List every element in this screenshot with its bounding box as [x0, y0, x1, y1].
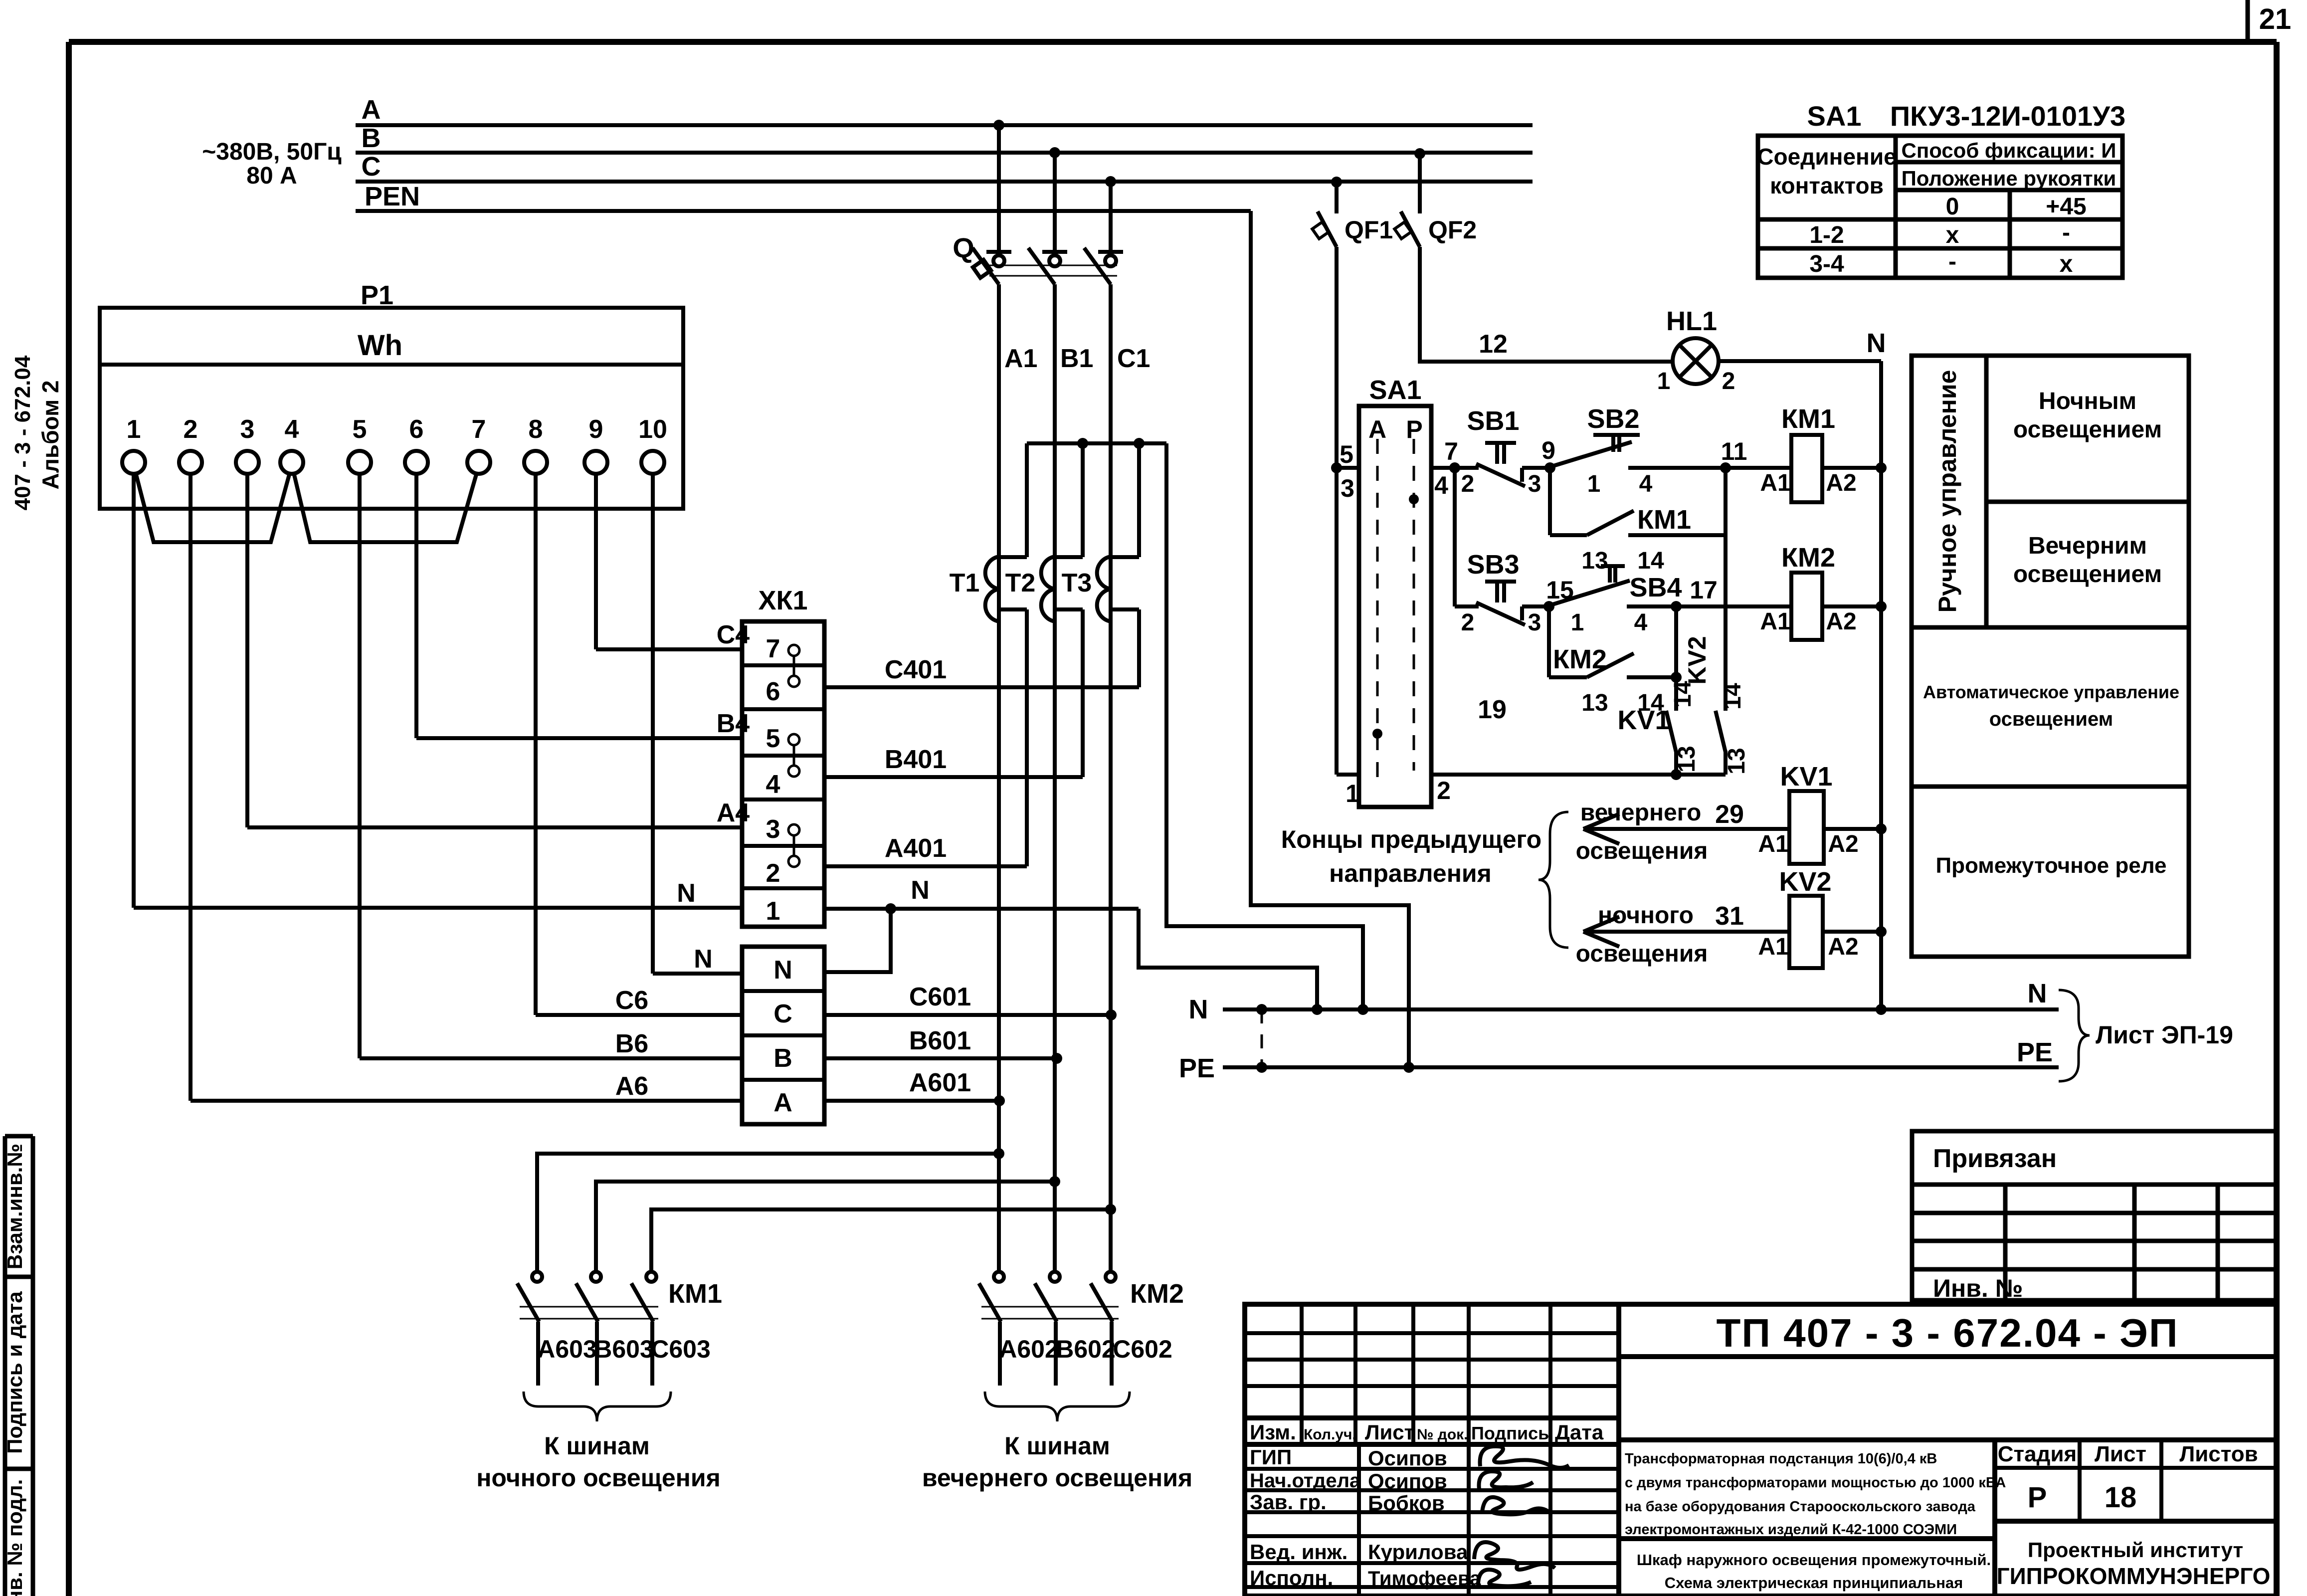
- svg-text:N: N: [1867, 328, 1886, 358]
- svg-text:вечернего: вечернего: [1580, 799, 1702, 826]
- svg-text:Соединение: Соединение: [1757, 144, 1896, 170]
- svg-text:N: N: [2028, 979, 2047, 1008]
- svg-text:A: A: [1368, 415, 1386, 443]
- svg-text:C401: C401: [885, 655, 947, 684]
- svg-text:B603: B603: [594, 1335, 654, 1363]
- svg-text:5: 5: [1340, 440, 1353, 468]
- svg-text:T1: T1: [950, 569, 980, 598]
- svg-text:8: 8: [529, 415, 543, 444]
- svg-text:Подпись и дата: Подпись и дата: [3, 1291, 26, 1454]
- svg-text:N: N: [773, 956, 792, 985]
- svg-text:SB4: SB4: [1629, 573, 1682, 602]
- svg-text:4: 4: [285, 415, 299, 444]
- svg-text:Проектный институт: Проектный институт: [2028, 1538, 2243, 1562]
- svg-text:31: 31: [1715, 902, 1744, 931]
- svg-text:Положение рукоятки: Положение рукоятки: [1902, 167, 2116, 190]
- svg-text:A1: A1: [1760, 470, 1790, 496]
- svg-text:P: P: [1406, 415, 1422, 443]
- svg-text:Вечерним: Вечерним: [2028, 533, 2147, 559]
- svg-text:C601: C601: [909, 983, 971, 1011]
- svg-text:N: N: [694, 945, 713, 974]
- svg-text:электромонтажных изделий К-42-: электромонтажных изделий К-42-1000 СОЭМИ: [1625, 1522, 1957, 1538]
- svg-text:ночного: ночного: [1598, 902, 1694, 929]
- svg-text:Взам.инв.№: Взам.инв.№: [3, 1144, 26, 1269]
- svg-text:Тимофеева: Тимофеева: [1368, 1568, 1481, 1590]
- svg-text:B4: B4: [717, 709, 750, 738]
- svg-text:A2: A2: [1826, 608, 1856, 635]
- svg-text:13: 13: [1724, 748, 1750, 774]
- svg-text:КМ1: КМ1: [1637, 505, 1691, 535]
- svg-text:A2: A2: [1826, 470, 1856, 496]
- svg-text:6: 6: [409, 415, 424, 444]
- svg-text:17: 17: [1690, 576, 1718, 604]
- svg-text:Лист: Лист: [2095, 1442, 2146, 1466]
- svg-text:Альбом 2: Альбом 2: [37, 380, 63, 489]
- svg-text:0: 0: [1946, 194, 1959, 220]
- svg-text:C6: C6: [615, 986, 648, 1015]
- svg-text:7: 7: [1444, 437, 1458, 465]
- svg-text:КМ1: КМ1: [1781, 404, 1835, 434]
- svg-text:B6: B6: [615, 1029, 648, 1058]
- svg-text:-: -: [1948, 248, 1956, 275]
- svg-text:SB3: SB3: [1467, 550, 1519, 580]
- svg-text:1: 1: [766, 897, 780, 926]
- svg-text:Лист: Лист: [1365, 1420, 1414, 1444]
- svg-text:1: 1: [1346, 780, 1359, 807]
- svg-text:N: N: [677, 879, 696, 908]
- svg-text:К шинам: К шинам: [544, 1432, 650, 1460]
- svg-text:контактов: контактов: [1770, 173, 1884, 199]
- svg-text:2: 2: [1437, 777, 1451, 804]
- svg-text:Дата: Дата: [1555, 1420, 1604, 1444]
- svg-text:4: 4: [766, 770, 780, 799]
- svg-text:Лист ЭП-19: Лист ЭП-19: [2096, 1021, 2233, 1049]
- svg-text:с двумя трансформаторами мощно: с двумя трансформаторами мощностью до 10…: [1625, 1475, 2006, 1491]
- svg-text:A602: A602: [999, 1335, 1059, 1363]
- svg-text:Р: Р: [2028, 1481, 2047, 1514]
- svg-text:3: 3: [1528, 471, 1541, 497]
- svg-text:Курилова: Курилова: [1368, 1540, 1468, 1564]
- svg-text:x: x: [2060, 251, 2073, 277]
- svg-text:КМ2: КМ2: [1553, 644, 1607, 674]
- svg-text:B1: B1: [1060, 344, 1093, 373]
- svg-text:A4: A4: [717, 798, 750, 827]
- svg-text:x: x: [1946, 222, 1959, 248]
- svg-text:9: 9: [1541, 436, 1555, 464]
- svg-text:Ручное управление: Ручное управление: [1933, 370, 1961, 613]
- svg-text:9: 9: [589, 415, 603, 444]
- svg-text:QF2: QF2: [1428, 216, 1477, 244]
- svg-text:C: C: [362, 152, 381, 182]
- svg-text:18: 18: [2105, 1481, 2137, 1514]
- svg-text:3: 3: [766, 815, 780, 844]
- svg-text:A1: A1: [1004, 344, 1037, 373]
- svg-text:14: 14: [1720, 683, 1746, 710]
- svg-text:Бобков: Бобков: [1368, 1491, 1445, 1515]
- svg-text:Wh: Wh: [358, 329, 402, 362]
- svg-text:КМ1: КМ1: [668, 1279, 722, 1309]
- svg-text:7: 7: [472, 415, 486, 444]
- svg-text:HL1: HL1: [1666, 306, 1717, 336]
- svg-text:Вед. инж.: Вед. инж.: [1250, 1540, 1347, 1564]
- svg-text:-: -: [2062, 219, 2070, 246]
- svg-text:T2: T2: [1005, 569, 1036, 598]
- svg-text:1: 1: [127, 415, 141, 444]
- svg-text:+45: +45: [2046, 194, 2086, 220]
- svg-text:4: 4: [1434, 471, 1448, 499]
- svg-text:ГИП: ГИП: [1250, 1445, 1292, 1469]
- svg-text:Промежуточное реле: Промежуточное реле: [1935, 853, 2166, 878]
- svg-text:SA1: SA1: [1369, 375, 1421, 405]
- svg-text:1: 1: [1587, 471, 1601, 497]
- svg-text:N: N: [911, 876, 930, 905]
- svg-text:B: B: [362, 123, 381, 153]
- svg-text:освещением: освещением: [2013, 561, 2162, 588]
- svg-text:A2: A2: [1828, 934, 1858, 960]
- svg-text:14: 14: [1637, 548, 1664, 574]
- svg-text:вечернего освещения: вечернего освещения: [922, 1464, 1192, 1492]
- svg-text:~380В, 50Гц: ~380В, 50Гц: [202, 139, 342, 165]
- svg-text:T3: T3: [1062, 569, 1092, 598]
- svg-text:Шкаф наружного освещения проме: Шкаф наружного освещения промежуточный.: [1637, 1551, 1991, 1569]
- svg-text:Осипов: Осипов: [1368, 1446, 1447, 1470]
- svg-text:19: 19: [1478, 695, 1507, 724]
- svg-text:Осипов: Осипов: [1368, 1469, 1447, 1493]
- svg-text:A1: A1: [1758, 831, 1788, 857]
- svg-text:Изм.: Изм.: [1250, 1420, 1296, 1444]
- svg-text:A1: A1: [1758, 934, 1788, 960]
- svg-text:К шинам: К шинам: [1004, 1432, 1110, 1460]
- svg-text:A6: A6: [615, 1072, 648, 1101]
- svg-text:KV1: KV1: [1780, 762, 1832, 792]
- svg-text:SA1: SA1: [1807, 100, 1862, 132]
- svg-text:2: 2: [184, 415, 198, 444]
- svg-text:Исполн.: Исполн.: [1250, 1566, 1333, 1590]
- svg-text:C603: C603: [651, 1335, 711, 1363]
- svg-text:C: C: [773, 999, 792, 1028]
- svg-text:ТП 407 - 3 - 672.04 - ЭП: ТП 407 - 3 - 672.04 - ЭП: [1717, 1311, 2179, 1355]
- svg-text:3: 3: [1528, 609, 1541, 636]
- svg-text:направления: направления: [1329, 859, 1492, 887]
- svg-text:SB1: SB1: [1467, 406, 1519, 436]
- svg-text:PEN: PEN: [365, 182, 420, 211]
- svg-text:ХК1: ХК1: [758, 586, 807, 615]
- svg-text:C602: C602: [1113, 1335, 1172, 1363]
- svg-text:Q: Q: [953, 232, 974, 263]
- svg-text:13: 13: [1581, 548, 1608, 574]
- svg-text:1: 1: [1571, 609, 1584, 636]
- svg-text:A401: A401: [885, 834, 947, 863]
- svg-text:B601: B601: [909, 1026, 971, 1055]
- svg-text:Стадия: Стадия: [1998, 1442, 2077, 1466]
- svg-text:КМ2: КМ2: [1781, 543, 1835, 573]
- svg-text:ПКУ3-12И-0101У3: ПКУ3-12И-0101У3: [1890, 100, 2125, 132]
- svg-text:Схема электрическая принципиал: Схема электрическая принципиальная: [1665, 1574, 1963, 1592]
- svg-text:2: 2: [1461, 471, 1475, 497]
- svg-text:13: 13: [1674, 746, 1700, 772]
- svg-text:Листов: Листов: [2179, 1442, 2258, 1466]
- svg-text:освещения: освещения: [1576, 838, 1708, 864]
- svg-text:80 А: 80 А: [246, 163, 297, 189]
- svg-text:PE: PE: [1179, 1053, 1215, 1083]
- svg-text:1-2: 1-2: [1809, 222, 1844, 248]
- svg-text:3: 3: [1341, 474, 1354, 502]
- svg-text:освещения: освещения: [1576, 941, 1708, 967]
- svg-text:ночного освещения: ночного освещения: [476, 1464, 721, 1492]
- svg-text:KV2: KV2: [1779, 867, 1831, 897]
- svg-text:на базе оборудования Старооско: на базе оборудования Старооскольского за…: [1625, 1499, 1976, 1515]
- svg-text:21: 21: [2259, 3, 2292, 35]
- svg-text:Кол.уч.: Кол.уч.: [1304, 1426, 1356, 1443]
- svg-text:A1: A1: [1760, 608, 1790, 635]
- svg-text:A: A: [773, 1088, 792, 1117]
- svg-text:КМ2: КМ2: [1130, 1279, 1184, 1309]
- svg-text:B602: B602: [1056, 1335, 1116, 1363]
- svg-text:10: 10: [638, 415, 667, 444]
- svg-text:12: 12: [1479, 330, 1508, 359]
- svg-text:15: 15: [1546, 576, 1574, 604]
- svg-text:KV2: KV2: [1683, 636, 1711, 684]
- svg-text:A: A: [362, 95, 381, 125]
- svg-text:Нач.отдела: Нач.отдела: [1250, 1470, 1361, 1492]
- svg-text:Ночным: Ночным: [2039, 388, 2136, 414]
- svg-text:14: 14: [1670, 681, 1696, 708]
- svg-text:7: 7: [766, 634, 780, 663]
- svg-text:29: 29: [1715, 800, 1744, 829]
- svg-text:SB2: SB2: [1587, 404, 1639, 434]
- svg-text:PE: PE: [2017, 1037, 2053, 1067]
- svg-text:Способ фиксации: И: Способ фиксации: И: [1902, 139, 2116, 162]
- svg-text:6: 6: [766, 677, 780, 706]
- svg-text:Концы предыдущего: Концы предыдущего: [1281, 825, 1541, 853]
- svg-text:4: 4: [1639, 471, 1653, 497]
- svg-text:3: 3: [240, 415, 255, 444]
- svg-text:C1: C1: [1117, 344, 1150, 373]
- svg-text:Автоматическое управление: Автоматическое управление: [1923, 682, 2179, 702]
- svg-text:ГИПРОКОММУНЭНЕРГО: ГИПРОКОММУНЭНЕРГО: [1997, 1563, 2271, 1589]
- svg-text:407 - 3 - 672.04: 407 - 3 - 672.04: [10, 355, 35, 510]
- svg-text:г. Иваново: г. Иваново: [2069, 1589, 2188, 1596]
- svg-text:5: 5: [353, 415, 367, 444]
- svg-text:Инв. №: Инв. №: [1933, 1274, 2023, 1302]
- svg-text:2: 2: [766, 859, 780, 888]
- svg-text:5: 5: [766, 724, 780, 753]
- svg-text:C4: C4: [717, 620, 750, 649]
- svg-text:Привязан: Привязан: [1933, 1144, 2057, 1173]
- svg-text:A2: A2: [1828, 831, 1858, 857]
- svg-text:№ док.: № док.: [1417, 1426, 1468, 1443]
- svg-text:A603: A603: [537, 1335, 597, 1363]
- svg-text:QF1: QF1: [1345, 216, 1393, 244]
- svg-text:A601: A601: [909, 1068, 971, 1097]
- svg-text:Зав. гр.: Зав. гр.: [1250, 1490, 1327, 1514]
- svg-text:11: 11: [1721, 437, 1747, 465]
- svg-text:Инв. № подл.: Инв. № подл.: [3, 1479, 26, 1596]
- svg-text:13: 13: [1581, 690, 1608, 716]
- svg-text:B401: B401: [885, 745, 947, 774]
- svg-text:Трансформаторная подстанция 10: Трансформаторная подстанция 10(6)/0,4 кВ: [1625, 1451, 1937, 1467]
- svg-text:N: N: [1189, 995, 1208, 1024]
- svg-text:KV1: KV1: [1617, 705, 1670, 735]
- svg-text:Подпись: Подпись: [1471, 1423, 1549, 1443]
- svg-text:освещением: освещением: [1989, 708, 2114, 730]
- svg-text:B: B: [773, 1044, 792, 1073]
- svg-text:освещением: освещением: [2013, 416, 2162, 443]
- svg-text:1: 1: [1657, 368, 1671, 395]
- svg-text:2: 2: [1722, 368, 1735, 395]
- svg-text:2: 2: [1461, 609, 1475, 636]
- svg-text:3-4: 3-4: [1809, 251, 1844, 277]
- svg-text:4: 4: [1634, 609, 1648, 636]
